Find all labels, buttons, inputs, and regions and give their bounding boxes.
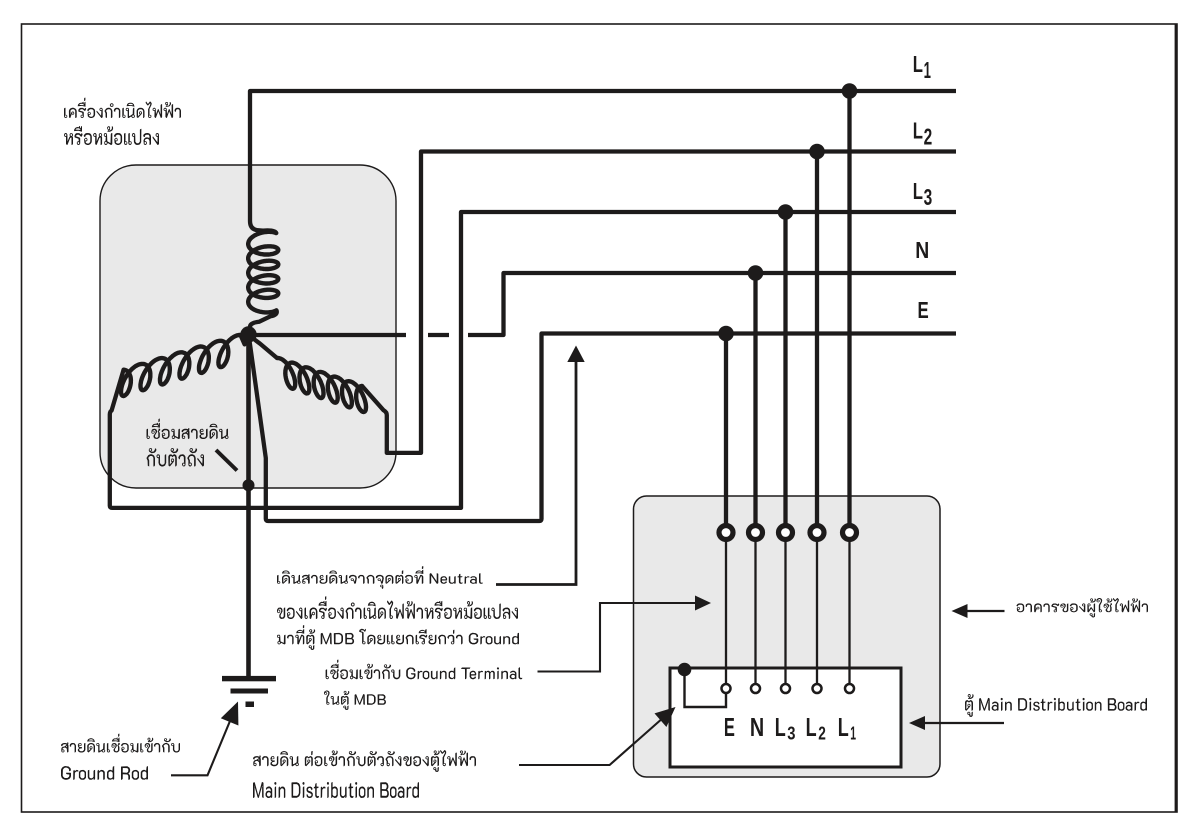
junction dot L2 tap bbox=[809, 144, 825, 160]
drop wire L1 bbox=[847, 91, 851, 533]
wire entry to terminal N bbox=[754, 533, 756, 689]
entry bushing E bbox=[719, 526, 733, 540]
note ground-from-neutral line1 bbox=[277, 566, 483, 589]
svg-text:L: L bbox=[775, 714, 786, 742]
label generator line1 bbox=[64, 98, 181, 118]
terminal L2 in MDB bbox=[813, 684, 822, 693]
wire entry to terminal L1 bbox=[848, 533, 850, 689]
bus line L2 bbox=[362, 152, 956, 453]
svg-text:L: L bbox=[913, 51, 923, 77]
winding coil top (phase L1) bbox=[248, 232, 278, 313]
MDB earth bond wire bbox=[685, 670, 727, 708]
svg-text:2: 2 bbox=[924, 124, 933, 150]
ground rod symbol bbox=[222, 676, 276, 681]
entry bushing N bbox=[749, 526, 763, 540]
label ground rod line2 bbox=[61, 766, 148, 780]
drop wire E bbox=[724, 334, 728, 533]
svg-text:3: 3 bbox=[924, 184, 933, 210]
note ground terminal line2 bbox=[324, 691, 386, 711]
tick from chassis label to bond point bbox=[216, 450, 237, 471]
junction dot N tap bbox=[748, 265, 764, 281]
label building bbox=[1017, 598, 1149, 618]
entry bushing L3 bbox=[779, 526, 793, 540]
svg-text:N: N bbox=[750, 714, 764, 742]
junction dot E tap bbox=[718, 326, 734, 342]
svg-text:N: N bbox=[915, 237, 929, 263]
leader with up arrow to ground conductor E bbox=[496, 361, 576, 585]
svg-text:L: L bbox=[913, 178, 923, 204]
svg-text:L: L bbox=[806, 714, 817, 742]
coil right entry wire bbox=[249, 335, 277, 358]
svg-text:L: L bbox=[838, 714, 849, 742]
consumer building enclosure bbox=[634, 496, 941, 777]
generator / transformer enclosure bbox=[100, 165, 396, 488]
MDB cabinet box bbox=[670, 668, 901, 767]
leader arrow to ground terminal in MDB bbox=[538, 603, 697, 672]
label chassis bond line1 bbox=[147, 419, 229, 439]
junction dot chassis bond bbox=[243, 479, 255, 491]
coil left entry wire bbox=[241, 335, 249, 344]
leader arrow to ground rod bbox=[171, 721, 230, 775]
bus line L3 bbox=[110, 212, 956, 508]
coil top exit wire bbox=[249, 310, 277, 333]
label MDB box bbox=[965, 694, 1147, 717]
drop wire N bbox=[753, 273, 757, 533]
bus line E with ground conductor from star point bbox=[249, 334, 956, 522]
svg-text:1: 1 bbox=[924, 57, 931, 83]
label generator line2 bbox=[64, 126, 159, 145]
winding coil right (phase L2) bbox=[277, 358, 366, 412]
svg-text:1: 1 bbox=[850, 724, 856, 744]
junction dot MDB chassis bbox=[678, 663, 692, 677]
node star point bbox=[240, 326, 256, 342]
svg-text:E: E bbox=[724, 714, 735, 742]
wire entry to terminal L3 bbox=[784, 533, 786, 689]
label chassis bond line2 bbox=[147, 448, 204, 467]
wire star point to ground rod bbox=[246, 335, 251, 677]
terminal L1 in MDB bbox=[845, 684, 854, 693]
note ground-from-neutral line3 bbox=[277, 625, 519, 650]
label MDB chassis earth line2 bbox=[253, 782, 419, 798]
label MDB chassis earth line1 bbox=[253, 750, 476, 772]
wire entry to terminal E bbox=[725, 533, 727, 689]
leader arrow to MDB box bbox=[924, 722, 1004, 724]
wire entry to terminal L2 bbox=[816, 533, 818, 689]
svg-text:E: E bbox=[918, 297, 929, 323]
leader arrow to building bbox=[967, 610, 1005, 612]
entry bushing L1 bbox=[843, 526, 857, 540]
terminal E in MDB bbox=[722, 684, 731, 693]
note ground-from-neutral line2 bbox=[277, 596, 518, 619]
junction dot L1 tap bbox=[842, 83, 858, 99]
svg-text:2: 2 bbox=[818, 724, 826, 744]
bus line N with dashed link to star point bbox=[249, 333, 407, 337]
entry bushing L2 bbox=[810, 526, 824, 540]
bus line L1 bbox=[250, 91, 956, 233]
terminal L3 in MDB bbox=[781, 684, 790, 693]
note ground terminal line1 bbox=[326, 660, 523, 680]
label ground rod line1 bbox=[61, 734, 180, 753]
drop wire L3 bbox=[783, 212, 787, 533]
terminal N in MDB bbox=[751, 684, 760, 693]
svg-text:L: L bbox=[913, 118, 923, 144]
drop wire L2 bbox=[815, 152, 819, 533]
leader arrow to MDB chassis bond bbox=[519, 717, 664, 765]
winding coil left (phase L3) bbox=[121, 335, 241, 396]
junction dot L3 tap bbox=[778, 204, 794, 220]
svg-text:3: 3 bbox=[787, 724, 795, 744]
